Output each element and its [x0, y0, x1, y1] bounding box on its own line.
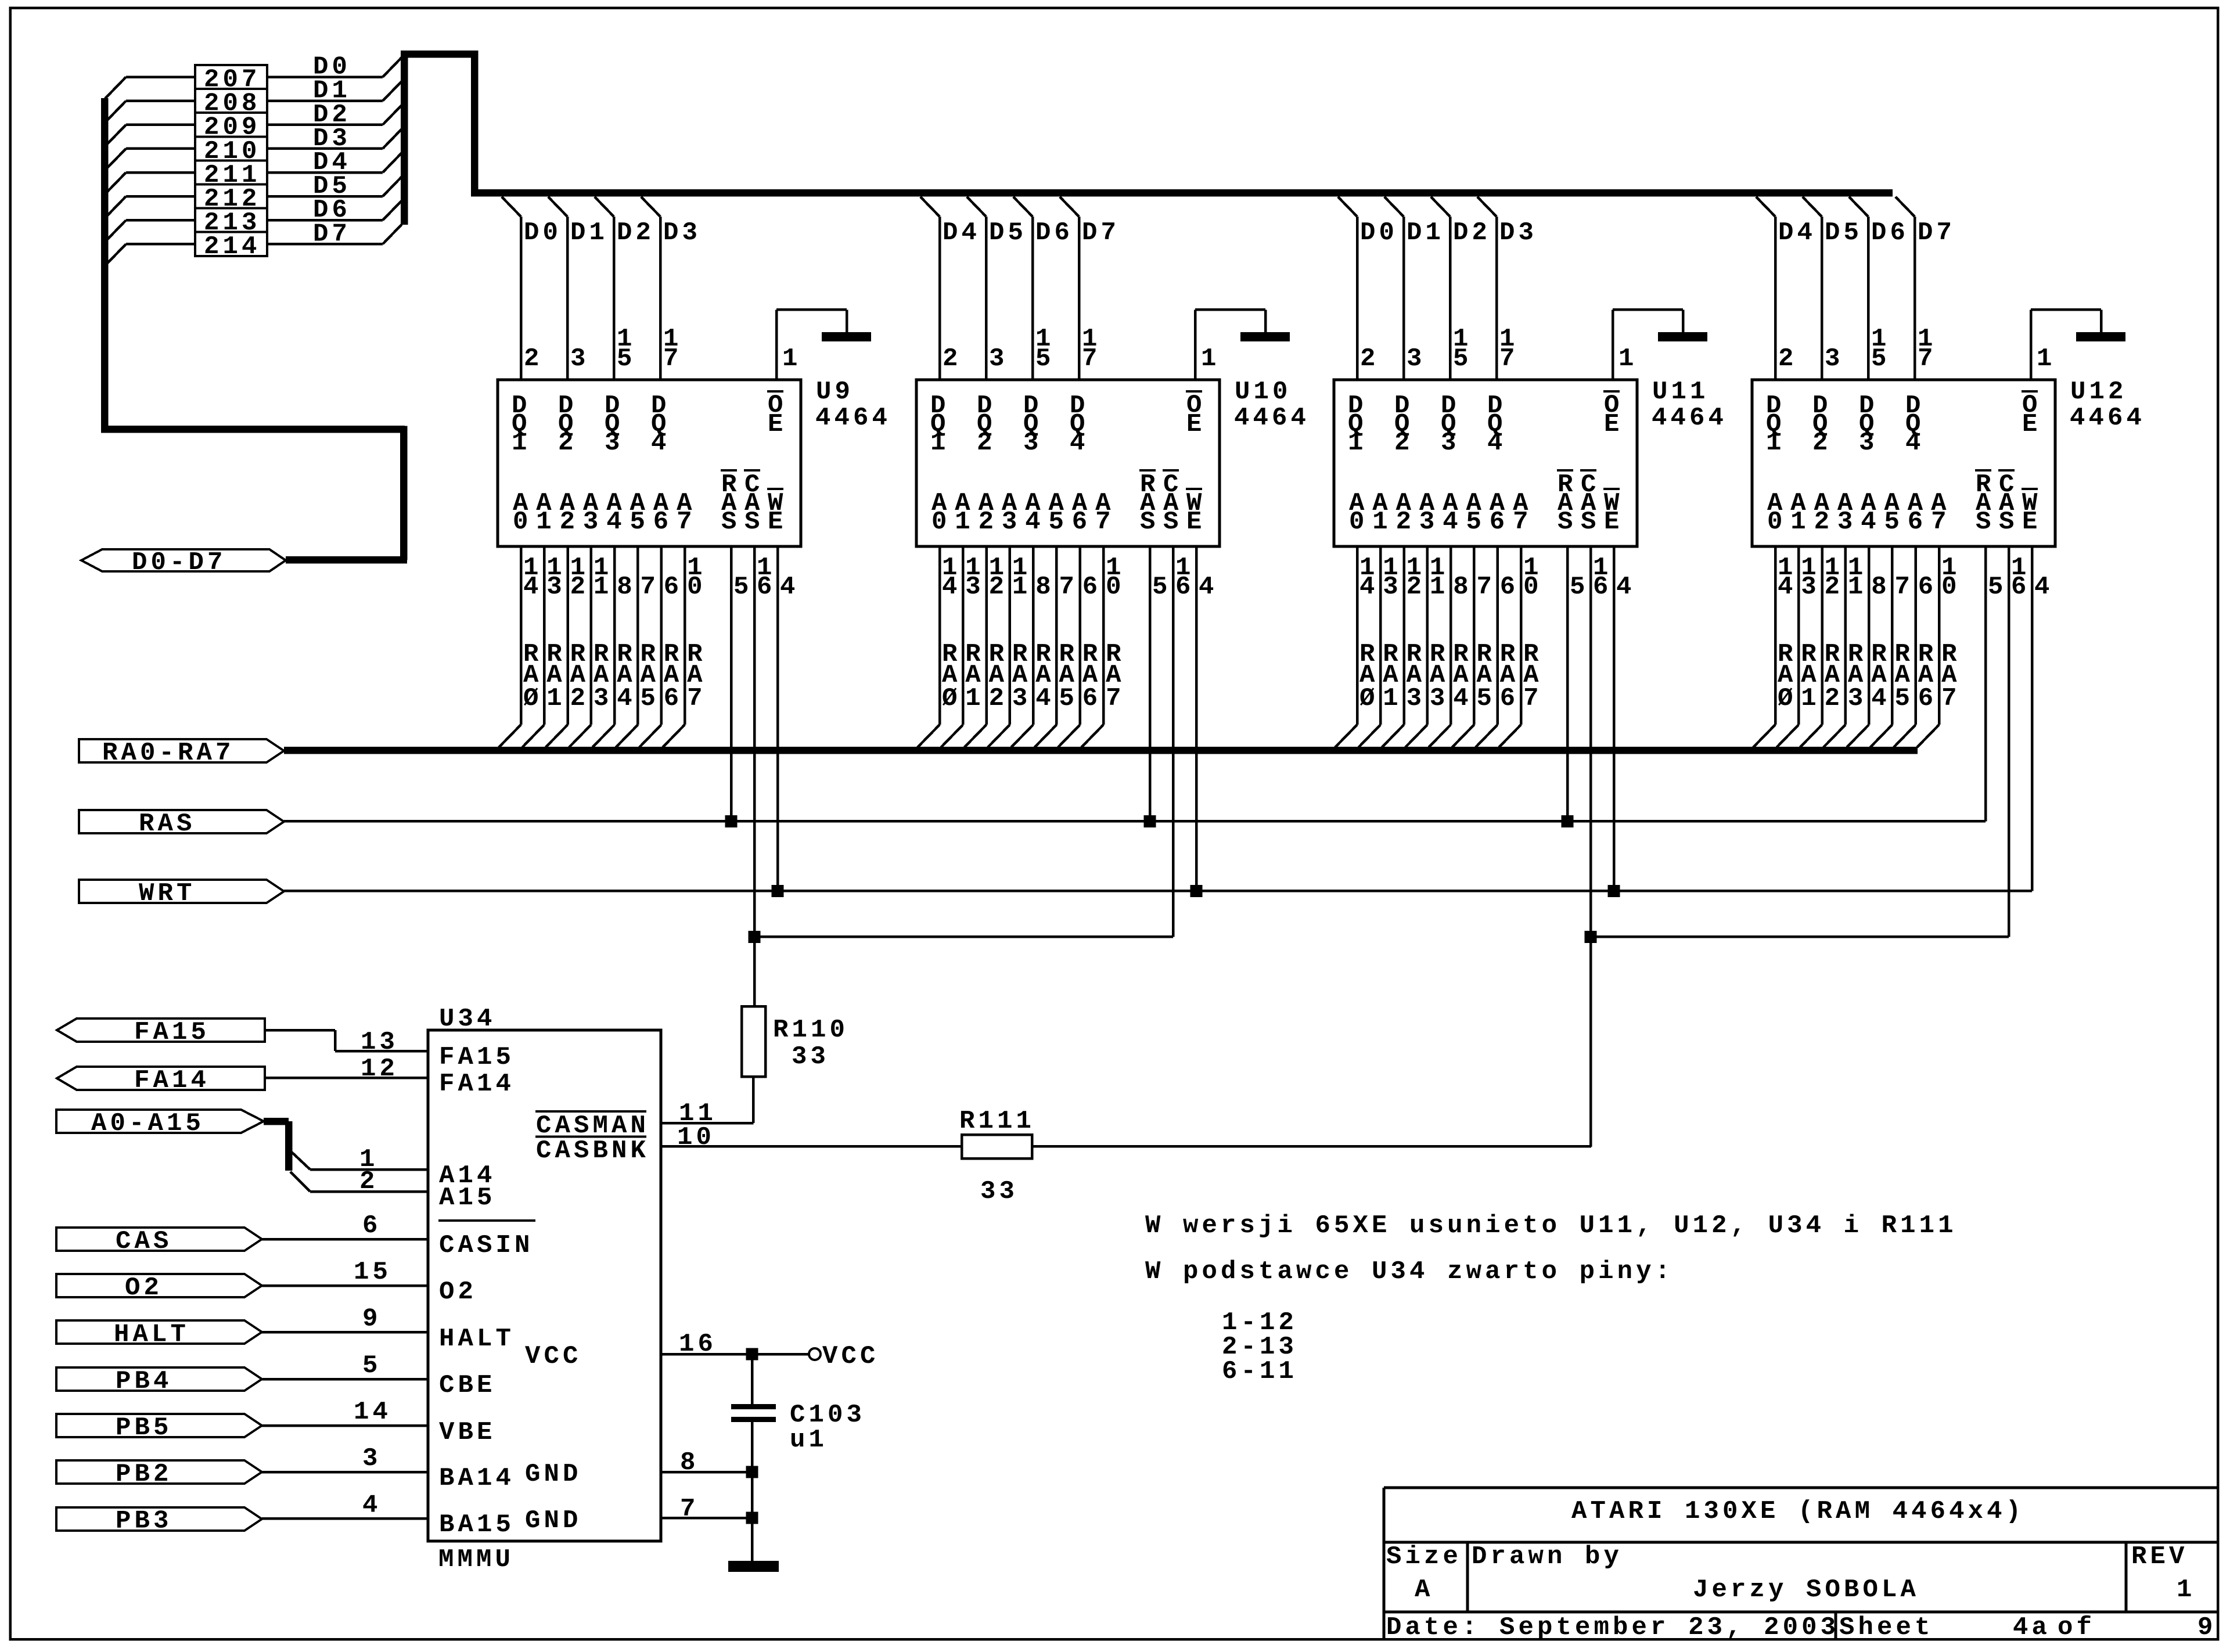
svg-text:3: 3: [570, 344, 589, 373]
U11 label OE: [1603, 390, 1623, 439]
svg-text:HALT: HALT: [114, 1320, 189, 1349]
wire HALT to U34: [262, 1305, 428, 1334]
svg-text:6: 6: [1500, 684, 1519, 713]
svg-text:4: 4: [1778, 573, 1797, 602]
svg-text:D6: D6: [1871, 218, 1909, 247]
svg-text:9: 9: [2197, 1613, 2217, 1642]
svg-text:D5: D5: [989, 218, 1027, 247]
svg-text:2: 2: [1825, 573, 1844, 602]
svg-text:0: 0: [1767, 508, 1786, 537]
wire R110 to CASMAN: [661, 1077, 755, 1124]
svg-text:8: 8: [1871, 573, 1890, 602]
svg-text:4: 4: [1905, 429, 1925, 458]
svg-text:U34: U34: [439, 1005, 496, 1034]
wire PB5 to U34: [262, 1398, 428, 1427]
resistor R111: [959, 1107, 1035, 1206]
U12 OE termination bar: [2076, 332, 2125, 341]
CAS U11-U12 join wire: [1591, 935, 2009, 938]
U9 pin 12 A2 wire: [546, 546, 589, 747]
svg-text:BA14: BA14: [439, 1464, 515, 1493]
U12 pin 10 A7 wire: [1917, 546, 1961, 747]
svg-text:7: 7: [1499, 344, 1519, 373]
svg-text:U12: U12: [2070, 377, 2127, 406]
svg-text:U9: U9: [816, 377, 854, 406]
svg-text:7: 7: [680, 1495, 699, 1524]
wire D0 to top bus: [267, 53, 402, 82]
U11 pin 6 A6 wire: [1476, 546, 1519, 747]
svg-text:E: E: [1186, 410, 1206, 439]
U11 pin 17 DQ4 wire: [1477, 197, 1537, 380]
svg-text:VCC: VCC: [525, 1342, 582, 1371]
svg-text:6: 6: [664, 684, 683, 713]
svg-text:4: 4: [942, 573, 961, 602]
note text 65XE: [1145, 1211, 1957, 1240]
title date cell: [1386, 1613, 1839, 1642]
svg-text:3: 3: [1012, 684, 1031, 713]
svg-text:4: 4: [523, 573, 542, 602]
svg-text:4: 4: [2034, 573, 2053, 602]
U12 pin 12 A2 wire: [1800, 546, 1844, 747]
U11 pin 7 A5 wire: [1452, 546, 1496, 747]
svg-text:6: 6: [1082, 684, 1102, 713]
svg-text:2: 2: [560, 508, 579, 537]
svg-text:4: 4: [362, 1491, 382, 1520]
svg-text:2: 2: [570, 684, 589, 713]
junction RAS at U9: [725, 815, 738, 827]
svg-text:5: 5: [362, 1351, 382, 1380]
U12 pin 7 A5 wire: [1871, 546, 1914, 747]
svg-text:3: 3: [1430, 684, 1449, 713]
svg-text:7: 7: [641, 573, 660, 602]
svg-text:4464: 4464: [1234, 404, 1310, 433]
svg-text:CASBNK: CASBNK: [536, 1136, 649, 1165]
svg-text:214: 214: [204, 232, 261, 261]
svg-text:14: 14: [354, 1398, 391, 1427]
U11 pin 3 DQ2 wire: [1384, 197, 1444, 380]
U34 pin 10 number: [677, 1123, 715, 1152]
svg-text:0: 0: [1941, 573, 1961, 602]
svg-text:3: 3: [546, 573, 566, 602]
U11 label RAS: [1557, 469, 1577, 537]
svg-text:HALT: HALT: [439, 1325, 515, 1354]
U9 label CAS: [744, 469, 764, 537]
svg-text:0: 0: [1523, 573, 1542, 602]
net tag WRT: [79, 879, 284, 908]
svg-text:3: 3: [1383, 573, 1402, 602]
U9 pin 1 OE wire: [775, 308, 848, 380]
U11 pin 14 A0 wire: [1335, 546, 1379, 747]
svg-text:13: 13: [361, 1028, 398, 1057]
U12 label WE: [2022, 488, 2041, 537]
net tag A0-A15: [56, 1109, 264, 1138]
svg-text:Ø: Ø: [1359, 684, 1379, 713]
U9 pin 11 A3 wire: [569, 546, 613, 747]
net tag RAS: [79, 809, 284, 838]
U11 pin 4 WE wire: [1613, 546, 1635, 891]
svg-text:MMMU: MMMU: [438, 1545, 514, 1574]
U12 pin 11 A3 wire: [1823, 546, 1867, 747]
svg-text:2: 2: [1812, 429, 1832, 458]
svg-text:D0: D0: [524, 218, 562, 247]
title block frame: [1383, 1487, 2218, 1640]
svg-text:1: 1: [1801, 684, 1820, 713]
U12 pin 13 A1 wire: [1776, 546, 1820, 747]
DRAM U10 4464 body: [916, 380, 1220, 546]
U9 pin 14 A0 wire: [499, 546, 542, 747]
svg-text:6-11: 6-11: [1222, 1357, 1297, 1386]
svg-text:3: 3: [1407, 344, 1426, 373]
svg-text:E: E: [1604, 410, 1623, 439]
U11 label DQ2: [1394, 391, 1413, 458]
net tag FA14: [57, 1066, 265, 1095]
svg-text:3: 3: [1002, 508, 1021, 537]
U9 pin 4 WE wire: [776, 546, 799, 891]
U10 pin 16 CAS wire: [1172, 546, 1195, 937]
junction CAS at U11: [1585, 931, 1597, 943]
wire FA15 to U34: [265, 1028, 428, 1057]
svg-text:3: 3: [1859, 429, 1878, 458]
svg-text:1: 1: [1430, 573, 1449, 602]
svg-text:5: 5: [1895, 684, 1914, 713]
RAS net wire: [284, 820, 1986, 823]
svg-text:2: 2: [1394, 429, 1413, 458]
U9 pin 7 A5 wire: [616, 546, 660, 747]
svg-text:S: S: [1976, 508, 1995, 537]
DRAM U9 4464 body: [498, 380, 801, 546]
svg-text:D0: D0: [1360, 218, 1398, 247]
title text: [1571, 1497, 2024, 1526]
U10 OE termination bar: [1240, 332, 1290, 341]
U12 label DQ1: [1766, 391, 1785, 458]
U10 pin 2 DQ1 wire: [920, 197, 980, 380]
svg-text:R110: R110: [773, 1016, 848, 1045]
svg-text:7: 7: [1513, 508, 1532, 537]
svg-text:D3: D3: [1499, 218, 1537, 247]
wire A15 to U34: [290, 1167, 428, 1196]
note text U34 socket: [1145, 1257, 1674, 1286]
svg-text:3: 3: [1419, 508, 1438, 537]
svg-text:4: 4: [780, 573, 799, 602]
svg-text:RAS: RAS: [139, 809, 196, 838]
U10 pin 5 RAS wire: [1149, 546, 1171, 822]
svg-text:S: S: [1558, 508, 1577, 537]
U11 pin 11 A3 wire: [1405, 546, 1449, 747]
svg-text:Date: September 23, 2003: Date: September 23, 2003: [1386, 1613, 1839, 1642]
U12 pin 4 WE wire: [2031, 546, 2053, 891]
svg-text:2: 2: [1825, 684, 1844, 713]
U11 label DQ4: [1487, 391, 1506, 458]
U10 reference label: [1234, 377, 1310, 433]
junction GND 8: [746, 1466, 758, 1478]
net tag PB3: [56, 1507, 262, 1536]
svg-text:S: S: [744, 508, 764, 537]
U10 pin 7 A5 wire: [1035, 546, 1078, 747]
svg-text:GND: GND: [525, 1460, 582, 1489]
svg-text:6: 6: [653, 508, 672, 537]
U34 label GND 8: [525, 1460, 582, 1489]
U10 pin 1 OE wire: [1194, 308, 1267, 380]
U11 pin 12 A2 wire: [1382, 546, 1426, 747]
svg-text:3: 3: [1837, 508, 1857, 537]
svg-text:7: 7: [1059, 573, 1078, 602]
svg-text:5: 5: [617, 344, 636, 373]
U34 pin 11 number: [679, 1099, 717, 1128]
svg-text:D2: D2: [617, 218, 654, 247]
wire D4 to left bus: [105, 171, 195, 194]
wire D7 to left bus: [105, 243, 195, 265]
U12 pin 14 A0 wire: [1753, 546, 1797, 747]
U12 labels A0-A7: [1767, 489, 1950, 537]
svg-text:2: 2: [1407, 573, 1426, 602]
connector pins 207-214: [195, 65, 267, 261]
svg-text:A15: A15: [439, 1183, 496, 1212]
svg-text:S: S: [1163, 508, 1182, 537]
U11 label WE: [1603, 488, 1623, 537]
svg-text:1: 1: [1348, 429, 1367, 458]
svg-text:5: 5: [1477, 684, 1496, 713]
U12 pin 8 A4 wire: [1847, 546, 1890, 747]
svg-text:BA15: BA15: [439, 1510, 515, 1539]
svg-text:2: 2: [979, 508, 998, 537]
svg-text:5: 5: [1059, 684, 1078, 713]
U10 pin 8 A4 wire: [1011, 546, 1055, 747]
svg-text:Jerzy SOBOLA: Jerzy SOBOLA: [1693, 1575, 1919, 1604]
U11 pin 13 A1 wire: [1358, 546, 1402, 747]
U12 label DQ3: [1859, 391, 1878, 458]
svg-text:FA14: FA14: [134, 1066, 210, 1095]
U9 label DQ1: [512, 391, 531, 458]
svg-text:4: 4: [651, 429, 670, 458]
svg-text:O2: O2: [439, 1277, 477, 1307]
WRT net wire: [284, 890, 2032, 892]
wire D4 to top bus: [267, 148, 402, 177]
svg-text:15: 15: [354, 1258, 391, 1287]
net tag PB5: [56, 1413, 262, 1442]
svg-text:3: 3: [583, 508, 602, 537]
svg-text:2: 2: [570, 573, 589, 602]
U10 label DQ2: [977, 391, 996, 458]
U11 labels A0-A7: [1349, 489, 1532, 537]
svg-text:2: 2: [1360, 344, 1379, 373]
U9 pin 5 RAS wire: [730, 546, 753, 822]
U9 pin 8 A4 wire: [592, 546, 636, 747]
svg-text:ATARI 130XE (RAM 4464x4): ATARI 130XE (RAM 4464x4): [1571, 1497, 2024, 1526]
svg-text:E: E: [2022, 508, 2041, 537]
svg-text:4: 4: [606, 508, 625, 537]
svg-text:2: 2: [1778, 344, 1797, 373]
net tag PB4: [56, 1367, 262, 1396]
svg-text:7: 7: [1941, 684, 1961, 713]
U10 label CAS: [1163, 469, 1182, 537]
junction WE at U9: [772, 885, 784, 897]
U10 pin 12 A2 wire: [965, 546, 1008, 747]
svg-text:1: 1: [930, 429, 949, 458]
svg-text:5: 5: [1453, 344, 1472, 373]
U10 label OE: [1186, 390, 1206, 439]
svg-text:1: 1: [2177, 1575, 2196, 1604]
svg-text:S: S: [721, 508, 740, 537]
U12 pin 2 DQ1 wire: [1756, 197, 1816, 380]
svg-text:6: 6: [1908, 508, 1927, 537]
U34 label CASMAN: [535, 1110, 649, 1140]
svg-text:7: 7: [663, 344, 682, 373]
U11 label DQ3: [1441, 391, 1460, 458]
U9 pin 3 DQ2 wire: [548, 197, 608, 380]
svg-text:6: 6: [1175, 573, 1195, 602]
U10 pin 11 A3 wire: [988, 546, 1031, 747]
U12 pin 17 DQ4 wire: [1895, 197, 1955, 380]
svg-text:PB5: PB5: [116, 1413, 172, 1442]
title drawn by cell: [1472, 1542, 1919, 1604]
svg-text:8: 8: [1453, 573, 1472, 602]
svg-text:4: 4: [1453, 684, 1472, 713]
U12 label CAS: [1998, 469, 2018, 537]
svg-text:O2: O2: [125, 1273, 163, 1302]
svg-text:3: 3: [1441, 429, 1460, 458]
svg-text:1: 1: [1790, 508, 1810, 537]
svg-text:U10: U10: [1235, 377, 1292, 406]
svg-text:7: 7: [1106, 684, 1125, 713]
svg-text:1: 1: [546, 684, 566, 713]
U10 pin 10 A7 wire: [1081, 546, 1125, 747]
wire PB4 to U34: [262, 1351, 428, 1380]
svg-text:4: 4: [617, 684, 636, 713]
CAS U9-U10 join wire: [754, 935, 1173, 938]
U12 pin 5 RAS wire: [1984, 546, 2007, 822]
svg-text:5: 5: [1049, 508, 1068, 537]
wire PB2 to U34: [262, 1444, 428, 1473]
svg-text:5: 5: [1152, 573, 1171, 602]
wire D7 to top bus: [267, 219, 402, 249]
svg-text:4: 4: [1199, 573, 1218, 602]
svg-text:33: 33: [980, 1177, 1018, 1206]
svg-text:1: 1: [2037, 344, 2056, 373]
U10 label DQ4: [1070, 391, 1089, 458]
svg-text:2: 2: [989, 684, 1008, 713]
U12 pin 15 DQ3 wire: [1849, 197, 1909, 380]
wire D5 to left bus: [105, 195, 195, 218]
svg-text:2: 2: [989, 573, 1008, 602]
U10 label RAS: [1139, 469, 1159, 537]
svg-text:D0-D7: D0-D7: [132, 548, 226, 577]
svg-text:S: S: [1581, 508, 1600, 537]
svg-text:REV: REV: [2131, 1542, 2188, 1571]
svg-text:5: 5: [1570, 573, 1589, 602]
U10 pin 3 DQ2 wire: [967, 197, 1027, 380]
svg-text:FA15: FA15: [439, 1043, 515, 1072]
svg-text:7: 7: [687, 684, 706, 713]
svg-text:D2: D2: [1453, 218, 1491, 247]
svg-text:E: E: [2022, 410, 2041, 439]
svg-text:5: 5: [1035, 344, 1055, 373]
svg-text:WRT: WRT: [139, 879, 196, 908]
U10 pin 4 WE wire: [1195, 546, 1218, 891]
wire FA14 to U34: [265, 1054, 428, 1084]
svg-text:3: 3: [1407, 684, 1426, 713]
svg-text:CASIN: CASIN: [439, 1231, 534, 1260]
U9 pin 6 A6 wire: [639, 546, 683, 747]
U9 label OE: [767, 390, 787, 439]
wire GND pin 8: [661, 1448, 752, 1477]
U9 pin 17 DQ4 wire: [641, 197, 701, 380]
wire CASBNK to R111: [661, 1145, 962, 1148]
svg-text:6: 6: [1918, 573, 1937, 602]
junction WE at U10: [1190, 885, 1203, 897]
svg-text:E: E: [1186, 508, 1206, 537]
svg-text:Ø: Ø: [1778, 684, 1797, 713]
svg-text:12: 12: [361, 1054, 398, 1084]
svg-text:0: 0: [1349, 508, 1368, 537]
svg-text:1: 1: [1383, 684, 1402, 713]
title rev cell: [2131, 1542, 2196, 1604]
junction GND 7: [746, 1512, 758, 1524]
svg-text:3: 3: [989, 344, 1008, 373]
svg-text:4: 4: [1487, 429, 1506, 458]
svg-text:3: 3: [1801, 573, 1820, 602]
wire CAS to U34: [262, 1211, 428, 1240]
svg-text:6: 6: [757, 573, 776, 602]
svg-text:D1: D1: [570, 218, 608, 247]
svg-text:16: 16: [679, 1330, 717, 1359]
U34 label GND 7: [525, 1506, 582, 1535]
svg-text:7: 7: [1095, 508, 1114, 537]
net tag RA0-RA7: [79, 739, 284, 768]
svg-text:1: 1: [512, 429, 531, 458]
U11 OE termination bar: [1658, 332, 1707, 341]
U12 reference label: [2070, 377, 2145, 433]
svg-text:4: 4: [1871, 684, 1890, 713]
U34 label CASBNK: [535, 1136, 649, 1166]
svg-text:4: 4: [1070, 429, 1089, 458]
svg-text:2: 2: [943, 344, 962, 373]
svg-text:6: 6: [664, 573, 683, 602]
svg-text:6: 6: [2011, 573, 2030, 602]
svg-text:1: 1: [965, 684, 984, 713]
svg-text:5: 5: [1466, 508, 1486, 537]
U11 label CAS: [1580, 469, 1600, 537]
svg-text:5: 5: [1884, 508, 1904, 537]
svg-text:VBE: VBE: [439, 1418, 496, 1447]
svg-text:10: 10: [677, 1123, 715, 1152]
IC U34 MMMU body: [428, 1005, 661, 1574]
U9 label DQ4: [651, 391, 670, 458]
svg-text:Sheet: Sheet: [1839, 1613, 1934, 1642]
title size cell: [1386, 1542, 1462, 1604]
U9 label WE: [767, 488, 787, 537]
svg-text:E: E: [768, 508, 787, 537]
U11 reference label: [1652, 377, 1727, 433]
svg-text:W wersji 65XE usunieto U11, U1: W wersji 65XE usunieto U11, U12, U34 i R…: [1145, 1211, 1957, 1240]
U11 pin 10 A7 wire: [1499, 546, 1542, 747]
svg-text:6: 6: [1593, 573, 1612, 602]
junction WE at U11: [1608, 885, 1620, 897]
svg-text:4: 4: [1861, 508, 1880, 537]
wire D6 to left bus: [105, 219, 195, 242]
DRAM U11 4464 body: [1334, 380, 1637, 546]
svg-text:4: 4: [1616, 573, 1635, 602]
svg-text:6: 6: [1490, 508, 1509, 537]
U10 label WE: [1186, 488, 1206, 537]
net tag HALT: [56, 1320, 262, 1349]
U12 pin 16 CAS wire: [2008, 546, 2030, 937]
net tag O2: [56, 1273, 262, 1302]
svg-text:GND: GND: [525, 1506, 582, 1535]
svg-text:W podstawce U34 zwarto piny:: W podstawce U34 zwarto piny:: [1145, 1257, 1674, 1286]
U11 pin 8 A4 wire: [1429, 546, 1472, 747]
svg-text:4464: 4464: [2070, 404, 2145, 433]
U11 pin 1 OE wire: [1612, 308, 1685, 380]
net tag CAS: [56, 1227, 262, 1256]
